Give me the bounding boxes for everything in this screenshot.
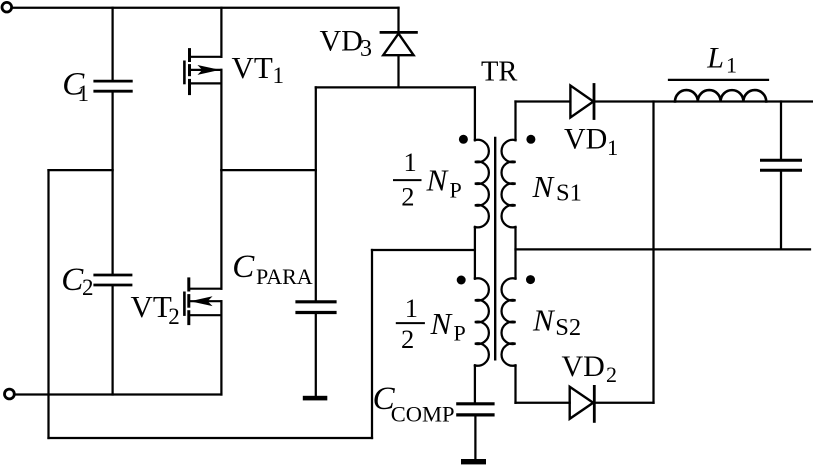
wire below CPARA [315,314,317,395]
svg-text:VD: VD [562,350,605,383]
wire output top rail [594,100,812,102]
input terminal top-left [2,2,12,12]
wire primary centre [474,227,476,279]
transformer TR core [494,138,496,359]
svg-text:1: 1 [607,135,618,160]
svg-text:PARA: PARA [256,264,313,289]
node tap wire C1-C2 midpoint [49,169,113,171]
svg-text:1: 1 [726,53,737,78]
svg-text:VD: VD [320,24,363,57]
wire centre-tap horizontal [372,249,475,251]
transistor VT1 [184,50,221,94]
svg-text:2: 2 [82,275,94,300]
svg-text:2: 2 [606,362,617,387]
wire NS2 to VD2 [516,402,570,404]
wire bottom input [16,393,222,395]
wire switch node [221,169,315,171]
svg-text:VD: VD [564,123,607,156]
output capacitor [780,102,782,159]
dot primary upper [459,135,468,144]
winding 1/2 NP upper [475,140,489,228]
dot primary lower [457,276,466,285]
diode VD2 [570,387,594,419]
wire VT2 drain [220,170,222,289]
dot NS1 [526,135,535,144]
wire bottom long [49,437,373,439]
wire below CCOMP [474,417,476,459]
wire rectifier junction vertical [652,102,654,403]
winding 1/2 NP lower [475,278,489,366]
svg-text:COMP: COMP [391,401,455,426]
svg-text:3: 3 [360,36,372,62]
wire VT1 source [220,70,222,170]
capacitor CCOMP [458,402,493,405]
svg-text:TR: TR [481,56,517,87]
wire VT1 drain [220,8,222,57]
transistor VT2 [184,279,221,324]
wire output return rail [516,248,811,250]
svg-text:1: 1 [405,293,418,323]
svg-text:2: 2 [401,324,414,354]
ground bar CPARA [303,396,328,401]
svg-text:L: L [706,42,724,75]
wire NS1 top lead [514,102,516,141]
svg-text:P: P [454,320,466,345]
svg-text:P: P [450,177,462,202]
capacitor C2 [95,274,131,277]
svg-text:C: C [232,249,255,285]
wire between C1 and C2 [111,93,113,274]
wire secondary centre [514,227,516,279]
wire clamp horizontal [316,86,475,88]
svg-text:N: N [532,303,556,338]
svg-text:1: 1 [78,81,90,106]
dot NS2 [526,275,535,284]
wire NS2 bottom lead [514,365,516,402]
wire NS1 to VD1 [516,100,571,102]
svg-text:S1: S1 [556,179,582,206]
svg-text:N: N [532,169,556,204]
svg-text:2: 2 [168,304,180,329]
svg-text:C: C [61,262,84,298]
wire riser to centre tap [371,250,373,438]
wire clamp vertical to switch node and Cpara [315,87,317,300]
wire VT2 source [220,301,222,394]
input terminal bottom-left [4,389,14,399]
label line L1 [669,79,768,81]
capacitor CPARA [297,300,335,303]
svg-text:VT: VT [232,50,273,85]
wire top rail [13,7,399,9]
wire below C2 [111,286,113,394]
capacitor C1 [95,80,132,83]
svg-text:VT: VT [131,289,172,324]
diode VD1 [570,86,593,118]
svg-text:N: N [430,306,454,341]
wire primary top lead [474,87,476,140]
wire primary bottom lead [474,365,476,402]
wire C1 branch upper [111,8,113,80]
wire left vertical [47,170,49,438]
diode VD3 [381,8,416,88]
svg-text:S2: S2 [555,314,581,341]
svg-text:1: 1 [273,63,285,88]
inductor L1 [675,90,766,101]
ground bar CCOMP [461,459,486,464]
svg-text:1: 1 [404,147,417,177]
winding NS2 [502,278,516,366]
svg-text:2: 2 [401,182,414,212]
winding NS1 [502,140,516,228]
svg-text:N: N [426,162,450,197]
wire VD2 to junction [594,402,653,404]
